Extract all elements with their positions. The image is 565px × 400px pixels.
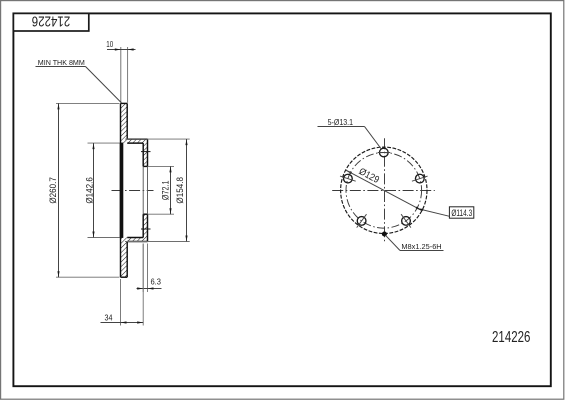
dim D154.8: text <box>175 177 186 204</box>
plate top edge <box>121 102 128 104</box>
title text 214226 rotated 180 <box>32 13 70 30</box>
label D114.3 box <box>449 207 473 218</box>
flange bottom face <box>127 241 147 243</box>
dim D72.1: extension lines <box>148 165 174 167</box>
dim 6.3: dimension line with arrows <box>137 288 162 290</box>
bolt hole top <box>379 148 388 157</box>
dim 34: dimension line <box>101 322 144 324</box>
plate outline <box>121 103 148 277</box>
dim D72.1: text <box>161 180 171 200</box>
dim D260.7: text <box>47 177 58 204</box>
plate hatch lower <box>121 238 128 278</box>
dim D72.1: dimension line <box>170 166 172 214</box>
bolt hole lower-left radial tick <box>357 214 367 227</box>
svg-text:214226: 214226 <box>32 13 70 30</box>
plate right edge upper <box>126 103 128 139</box>
vertical centerline <box>384 138 386 242</box>
bolt hole upper-left radial tick <box>340 176 356 181</box>
flange inner face upper <box>127 142 143 144</box>
flange top face <box>127 138 147 140</box>
dim 6.3: extension lines <box>142 244 144 293</box>
svg-text:Ø114.3: Ø114.3 <box>451 208 472 218</box>
hat bowl inner visible edge (thick bar) <box>120 143 124 238</box>
plate right edge lower <box>126 242 128 278</box>
M8 tapped hole (filled dot) <box>382 231 387 236</box>
dim D260.7: extension lines <box>56 102 119 104</box>
label M8x1.25-6H underline <box>400 250 444 252</box>
dim D129 text <box>357 166 381 185</box>
svg-text:Ø142.6: Ø142.6 <box>84 177 95 204</box>
label D114.3 leader with arrow <box>417 209 449 217</box>
dim D142.6: dimension line <box>93 143 95 237</box>
svg-text:Ø72.1: Ø72.1 <box>161 180 171 200</box>
svg-text:6.3: 6.3 <box>150 277 161 286</box>
svg-text:214226: 214226 <box>492 328 530 345</box>
hat bore silhouette right edge <box>147 166 149 214</box>
flange inner face lower <box>127 237 143 239</box>
bolt hole upper-left <box>344 174 353 183</box>
label 5-D13.1 underline <box>318 126 365 128</box>
dim D260.7: dimension line <box>58 103 60 277</box>
svg-text:34: 34 <box>105 313 114 323</box>
svg-text:Ø154.8: Ø154.8 <box>175 177 186 204</box>
dim D142.6: text <box>84 177 95 204</box>
dim D154.8: extension lines <box>125 138 190 140</box>
flange hatch lower <box>127 238 147 242</box>
bore cap lower <box>143 213 147 215</box>
title box top-left <box>13 13 88 31</box>
bolt hole lower-right radial tick <box>401 214 411 227</box>
hat wall left face upper <box>142 143 144 166</box>
bolt hole tick upper in section <box>141 151 151 153</box>
flange hatch upper <box>127 139 147 143</box>
hat wall right face lower <box>147 214 149 241</box>
svg-text:10: 10 <box>106 41 113 49</box>
bolt hole upper-right <box>415 174 424 183</box>
dim 34: extension lines <box>120 279 122 326</box>
label M8x1.25-6H leader <box>385 235 400 250</box>
dim D142.6: extension lines <box>88 142 120 144</box>
svg-text:Ø260.7: Ø260.7 <box>47 177 58 204</box>
plate bottom edge <box>121 276 128 278</box>
svg-text:M8x1.25-6H: M8x1.25-6H <box>401 242 441 251</box>
hat wall hatch lower <box>143 214 147 237</box>
bolt hole lower-left <box>357 217 366 226</box>
plate left edge <box>120 103 122 277</box>
hat bore silhouette left edge <box>142 166 144 214</box>
svg-text:MIN THK 8MM: MIN THK 8MM <box>38 58 85 67</box>
horizontal centerline <box>332 190 435 192</box>
dim 10: dimension line with outside arrows <box>107 49 136 51</box>
hat wall hatch upper <box>143 143 147 166</box>
outer circle D129 <box>341 147 427 233</box>
MIN THK underline <box>36 66 86 68</box>
bolt hole upper-right radial tick <box>412 176 428 181</box>
hat wall right face upper <box>147 139 149 166</box>
label 5-D13.1 leader <box>365 127 382 150</box>
bolt hole tick lower in section <box>141 228 151 230</box>
dim D129 diagonal diameter line <box>346 170 352 173</box>
hat wall left face lower <box>142 214 144 237</box>
centerline of section <box>112 190 154 192</box>
bolt hole lower-right <box>402 217 411 226</box>
bore cap upper <box>143 165 147 167</box>
dim D154.8: dimension line <box>186 139 188 241</box>
svg-text:5-Ø13.1: 5-Ø13.1 <box>328 118 353 128</box>
plate hatch upper <box>121 103 128 143</box>
dim 10: extension lines <box>120 47 122 103</box>
bolt hole top tangential tick <box>378 152 390 154</box>
MIN THK leader <box>86 67 122 104</box>
bolt circle D114.3 dash-dot <box>346 153 422 229</box>
